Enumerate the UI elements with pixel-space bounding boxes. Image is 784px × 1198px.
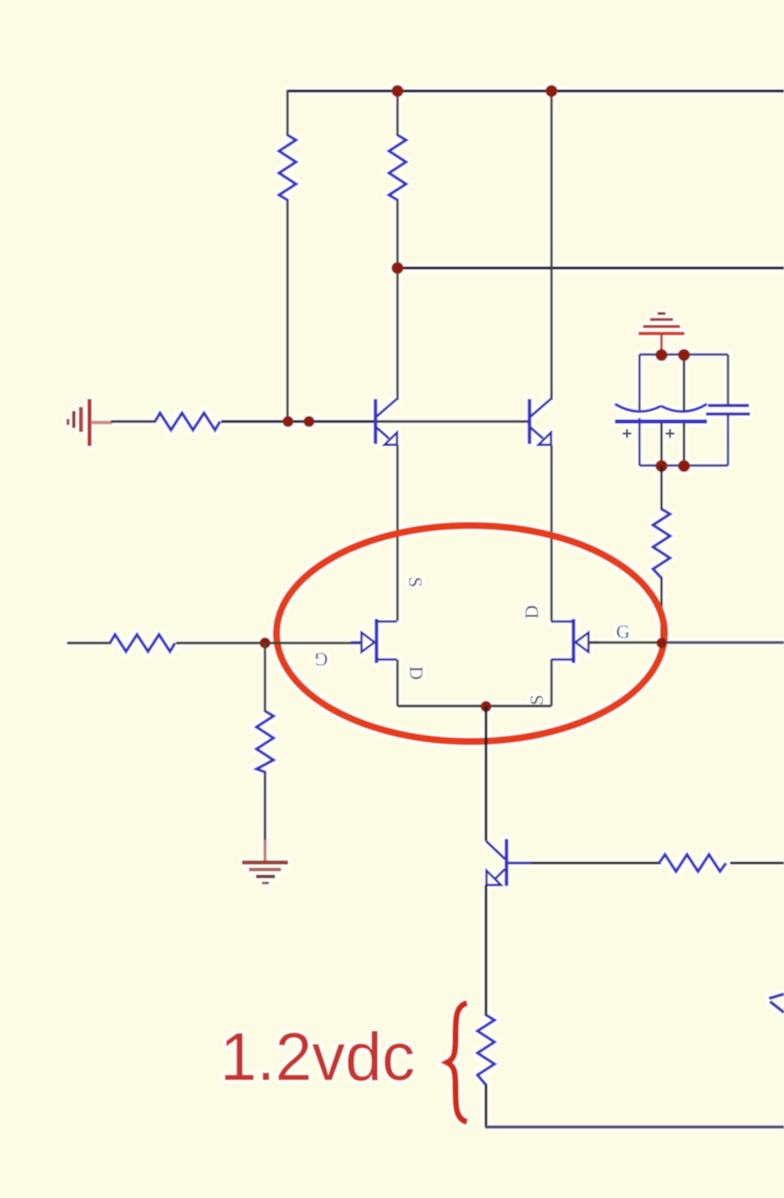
label J2 S	[527, 695, 548, 706]
annotation brace	[447, 1003, 467, 1122]
svg-text:D: D	[522, 605, 543, 619]
resistor R6	[257, 711, 274, 772]
wire top rail	[287, 90, 784, 93]
wire Q2 emitter to J2 drain	[550, 445, 553, 621]
transistor Q1 (left NPN)	[376, 399, 398, 445]
node junction cap bottom right	[678, 460, 690, 472]
resistor R1	[279, 135, 296, 200]
node junction V+ left	[392, 85, 404, 97]
wire Q1 emitter to J1 source	[396, 445, 399, 621]
wire base net between transistors	[377, 420, 528, 423]
transistor J2 (right JFET)	[551, 619, 599, 663]
capacitor bank box	[640, 355, 729, 466]
svg-text:1.2vdc: 1.2vdc	[220, 1019, 415, 1095]
resistor R5	[110, 635, 175, 652]
wire right branch vertical	[550, 91, 553, 400]
label J1 D	[405, 666, 426, 680]
resistor R2	[389, 135, 406, 200]
node junction base B	[304, 416, 315, 427]
wire J1 drain down	[396, 660, 399, 707]
wire source to Q3	[485, 706, 488, 841]
wire gate net right	[589, 641, 784, 644]
svg-text:G: G	[314, 648, 328, 669]
wire left branch vertical	[286, 90, 289, 421]
wire second rail	[398, 267, 784, 270]
capacitor C3 (film right)	[706, 406, 750, 415]
ground GND3 bottom-left earth symbol	[242, 863, 288, 884]
node junction base A	[283, 416, 294, 427]
wire R6 branch	[264, 643, 267, 861]
node junction V+ right	[546, 85, 558, 97]
label J1 G	[314, 648, 328, 669]
resistor R4	[653, 509, 670, 578]
ellipse annotation highlight	[277, 526, 665, 742]
wire Q3 emitter down	[485, 885, 488, 1127]
label J2 G	[616, 622, 630, 643]
wire base net left	[111, 420, 374, 423]
resistor R8	[478, 1015, 495, 1085]
node junction cap bottom left	[656, 460, 668, 472]
svg-text:G: G	[616, 622, 630, 643]
wire cap to R4	[660, 466, 662, 643]
node junction gate right	[656, 638, 666, 648]
label J1 S	[404, 577, 425, 588]
label J2 D	[522, 605, 543, 619]
node junction rail2	[392, 262, 404, 274]
wire source connector	[398, 705, 552, 708]
wire mid branch vertical	[396, 91, 399, 400]
wire bottom rail	[485, 1125, 784, 1128]
transistor J1 (left JFET) gate lead arrow	[351, 619, 397, 663]
transistor Q2 (right NPN)	[530, 399, 552, 445]
svg-text:S: S	[404, 577, 425, 588]
svg-text:D: D	[405, 666, 426, 680]
label 1.2vdc	[220, 1019, 415, 1095]
resistor R7	[659, 855, 726, 872]
wire Q3 base net	[508, 862, 784, 865]
ground GND1 left earth symbol	[68, 399, 112, 446]
node junction gate left	[260, 638, 271, 649]
ground GND2 top-right power symbol	[639, 314, 685, 356]
node junction source	[481, 701, 492, 712]
transistor Q3 (bottom)	[486, 839, 507, 886]
wire J2 source down	[550, 660, 553, 707]
node junction cap top right	[678, 349, 690, 361]
resistor R3	[155, 413, 220, 430]
capacitor C1 (polarized left)	[615, 404, 707, 438]
svg-text:S: S	[527, 695, 548, 706]
capacitor C2 (polarized right)	[661, 404, 707, 438]
node junction cap top left	[656, 349, 668, 361]
resistor R9 partial right edge	[769, 994, 784, 1013]
wire gate net left	[67, 642, 361, 645]
